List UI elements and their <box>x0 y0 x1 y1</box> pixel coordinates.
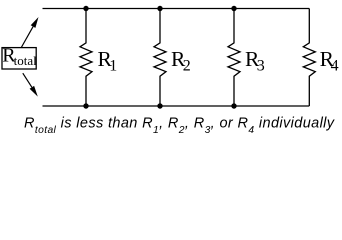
svg-text:2: 2 <box>183 57 191 74</box>
svg-text:total: total <box>14 53 37 68</box>
svg-text:1: 1 <box>109 57 117 74</box>
svg-text:4: 4 <box>331 57 339 74</box>
svg-text:3: 3 <box>257 57 265 74</box>
svg-text:Rtotal is less than R1, R2, R3: Rtotal is less than R1, R2, R3, or R4 in… <box>24 116 335 136</box>
